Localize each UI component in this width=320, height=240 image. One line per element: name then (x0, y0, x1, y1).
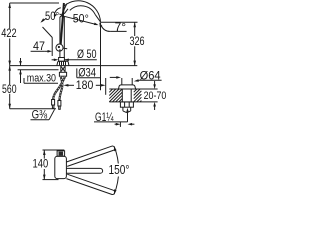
svg-text:50°: 50° (73, 12, 89, 26)
140 dim vline (43, 150, 45, 159)
body in plan (55, 156, 67, 178)
wire 422/560 dimension vline x=9.7 (9, 3, 11, 29)
shank through slab (121, 89, 123, 102)
hatch right (134, 89, 142, 102)
326 dim line (134, 22, 136, 36)
50deg swing ray (64, 16, 97, 24)
node Ø64 label (138, 79, 162, 81)
supply hoses (59, 76, 62, 100)
slab top/bottom (109, 88, 157, 90)
hose connectors (52, 100, 55, 106)
20-70 dimension (154, 81, 156, 85)
sub dimension under G1 1/4 (119, 122, 121, 127)
mounting nut (59, 72, 66, 76)
svg-text:47: 47 (33, 39, 45, 53)
svg-text:Ø34: Ø34 (78, 65, 96, 79)
svg-text:G1¼: G1¼ (95, 110, 114, 124)
node G3/8 label (31, 119, 50, 121)
outlet vertical extension (100, 22, 102, 90)
50deg angle arc (54, 8, 60, 17)
hatch left (109, 89, 122, 102)
svg-text:180: 180 (76, 78, 94, 92)
svg-text:G⅜: G⅜ (32, 108, 48, 122)
ghost spout lower (66, 174, 114, 194)
second ghost lever stroke (64, 9, 68, 14)
svg-text:560: 560 (2, 82, 17, 96)
spout outlet face (95, 15, 100, 22)
spout outer arc (64, 1, 101, 22)
wire max30 dim vline x=20.5 (20, 58, 22, 66)
svg-text:20-70: 20-70 (144, 90, 167, 102)
lever in plan (57, 151, 65, 156)
svg-text:50°: 50° (45, 9, 59, 23)
tailpiece stub (121, 78, 123, 85)
326 outlet extension (101, 21, 138, 23)
svg-text:Ø64: Ø64 (140, 69, 161, 83)
svg-text:Ø 50: Ø 50 (77, 47, 97, 61)
body column (59, 17, 61, 58)
lever handle (long pin) (61, 3, 64, 44)
escutcheon base (57, 61, 69, 65)
threaded shank end (122, 107, 124, 111)
47 dimension (43, 27, 53, 38)
ghost spout upper (66, 146, 114, 166)
wire hose-end line y=108.8 (10, 108, 56, 110)
flange (119, 85, 136, 89)
wire counter line y=65.6 (10, 65, 138, 67)
threaded shank below counter (60, 66, 62, 73)
spout inner arc (70, 6, 96, 15)
svg-text:326: 326 (129, 34, 144, 48)
180 dimension (66, 84, 74, 86)
node G1 1/4 label (127, 111, 129, 122)
nut below slab (120, 102, 133, 107)
svg-text:max.30: max.30 (27, 73, 56, 85)
Ø50 dimension (52, 59, 56, 61)
node max.30 label (24, 82, 58, 84)
svg-text:150°: 150° (109, 163, 130, 177)
wire counter underside line y=69.8 (18, 69, 59, 71)
svg-text:140: 140 (33, 157, 49, 171)
spout in plan (66, 168, 102, 173)
140 dim ticks (43, 149, 65, 151)
Ø34 label (76, 68, 78, 77)
wire top extension line y=3 (10, 2, 59, 4)
svg-text:422: 422 (1, 26, 16, 40)
faucet technical drawing (0, 0, 169, 200)
Ø64 arrows (110, 76, 117, 78)
pivot ball joint (56, 44, 63, 51)
150deg angle arc (114, 146, 119, 194)
ghost lever position (62, 3, 67, 14)
collar (59, 58, 65, 62)
